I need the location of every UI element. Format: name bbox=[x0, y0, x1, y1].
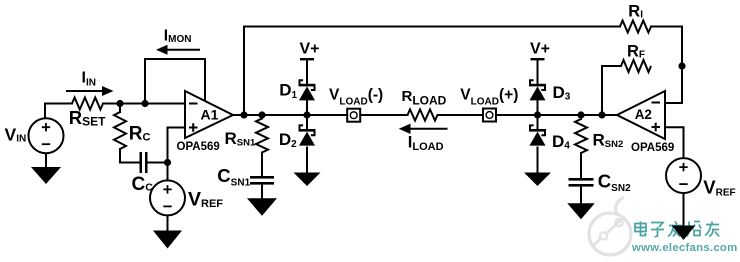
svg-text:OPA569: OPA569 bbox=[631, 142, 674, 154]
svg-text:www.elecfans.com: www.elecfans.com bbox=[631, 242, 738, 254]
svg-text:OPA569: OPA569 bbox=[177, 141, 220, 153]
svg-text:V+: V+ bbox=[530, 41, 550, 58]
svg-text:A2: A2 bbox=[635, 107, 652, 122]
svg-text:A1: A1 bbox=[201, 107, 219, 123]
svg-text:V+: V+ bbox=[300, 41, 320, 58]
